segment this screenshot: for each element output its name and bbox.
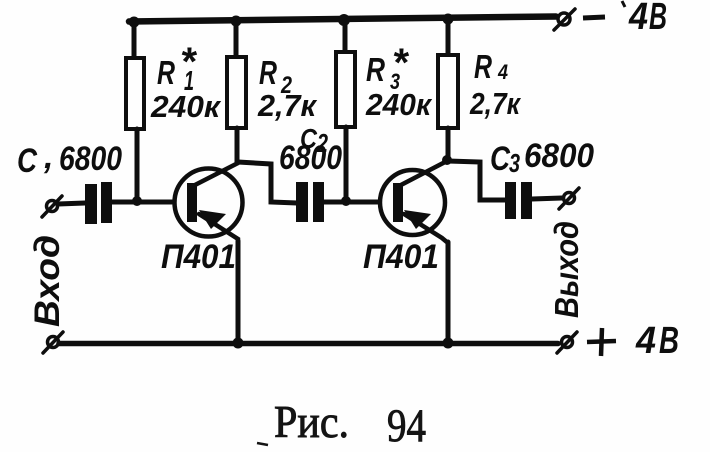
wire bottom rail +4V bbox=[59, 341, 558, 347]
wire R3 to C2 output node bbox=[344, 127, 349, 201]
wire Q1 collector to C2 bbox=[238, 162, 297, 203]
label R3 bbox=[366, 41, 410, 94]
wire Q2 collector to C3 bbox=[448, 161, 506, 200]
wire C2 to Q2 base bbox=[324, 200, 378, 205]
transistor Q2 circle bbox=[380, 170, 445, 235]
svg-text:6800: 6800 bbox=[59, 140, 122, 178]
svg-text:4: 4 bbox=[635, 320, 656, 362]
wire rail to R3 bbox=[343, 20, 348, 52]
transistor Q2 emitter line bbox=[404, 214, 448, 243]
svg-text:240к: 240к bbox=[365, 87, 432, 122]
wire rail to R4 bbox=[446, 19, 451, 55]
terminal top right bbox=[554, 9, 575, 30]
svg-text:C: C bbox=[490, 140, 510, 178]
label +4V bottom right bbox=[587, 320, 679, 362]
svg-text:6800: 6800 bbox=[279, 139, 342, 177]
speckle mark bbox=[257, 443, 268, 445]
node dot Q2 collector bbox=[442, 155, 452, 165]
terminal output right bbox=[559, 188, 579, 209]
wire R1 to input node bbox=[135, 129, 140, 201]
svg-text:240к: 240к bbox=[150, 89, 221, 124]
svg-text:4: 4 bbox=[497, 61, 508, 84]
wire rail to R1 bbox=[132, 22, 137, 58]
svg-text:94: 94 bbox=[387, 400, 426, 452]
svg-text:3: 3 bbox=[509, 148, 520, 178]
transistor Q1 emitter line bbox=[199, 214, 238, 244]
resistor R2 body bbox=[227, 57, 246, 128]
wire C3 to output terminal bbox=[532, 198, 562, 199]
node dot C1/R1/base bbox=[132, 196, 142, 206]
node dot rail/R4 bbox=[443, 14, 454, 25]
node dot rail/Q1 emitter bbox=[233, 338, 244, 349]
resistor R1 body bbox=[126, 58, 144, 129]
wire C1 to base node bbox=[112, 200, 172, 205]
transistor Q2 base bar bbox=[393, 183, 403, 222]
node dot rail/R3 bbox=[338, 14, 350, 26]
svg-text:В: В bbox=[659, 320, 679, 362]
label R2 bbox=[259, 54, 293, 99]
node dot C2/R3/base bbox=[341, 196, 351, 206]
capacitor C3 plates bbox=[505, 182, 532, 219]
svg-text:2,7к: 2,7к bbox=[469, 86, 521, 121]
wire top rail -4V bbox=[129, 17, 556, 22]
label C1 6800 bbox=[17, 138, 122, 180]
transistor Q2 emitter arrow bbox=[404, 210, 431, 229]
transistor Q1 emitter arrow bbox=[199, 210, 226, 229]
wire R4 to T2 collector node bbox=[446, 128, 451, 161]
transistor Q1 base bar bbox=[187, 183, 197, 222]
node dot rail/R2 bbox=[231, 16, 242, 27]
label -4V top right bbox=[583, 0, 667, 38]
svg-text:2,7к: 2,7к bbox=[257, 88, 317, 123]
caption Ris. 94 bbox=[257, 397, 426, 452]
svg-text:Выход: Выход bbox=[548, 221, 585, 318]
wire rail to R2 bbox=[234, 21, 239, 57]
svg-text:4: 4 bbox=[628, 0, 648, 38]
node dot rail/R1 bbox=[129, 17, 140, 28]
svg-text:R: R bbox=[259, 54, 277, 91]
svg-text:П401: П401 bbox=[363, 238, 439, 276]
wire Q2 emitter to bottom rail bbox=[446, 242, 451, 342]
resistor R3 body bbox=[336, 52, 355, 127]
terminal bottom right bbox=[557, 332, 577, 353]
svg-text:П401: П401 bbox=[161, 238, 236, 276]
svg-text:C: C bbox=[17, 142, 37, 180]
svg-text:,: , bbox=[43, 138, 53, 176]
svg-text:Рис.: Рис. bbox=[274, 397, 349, 447]
label R4 bbox=[474, 48, 508, 85]
svg-text:Вход: Вход bbox=[28, 235, 67, 327]
transistor Q1 circle bbox=[175, 169, 243, 237]
terminal bottom left bbox=[43, 332, 63, 353]
svg-text:В: В bbox=[649, 0, 667, 38]
label C3 6800 bbox=[490, 137, 594, 178]
wire input terminal to C1 bbox=[58, 203, 85, 204]
svg-text:6800: 6800 bbox=[524, 137, 594, 175]
transistor Q2 collector line bbox=[399, 161, 447, 186]
svg-text:R: R bbox=[157, 54, 175, 91]
wire R2 to T1 collector node bbox=[235, 128, 240, 163]
label C2 bbox=[300, 123, 328, 158]
transistor Q1 collector line bbox=[193, 163, 238, 186]
label R1 bbox=[157, 40, 198, 96]
capacitor C2 plates bbox=[296, 182, 324, 222]
svg-text:R: R bbox=[474, 48, 492, 85]
node dot rail/Q2 emitter bbox=[443, 338, 454, 349]
svg-text:R: R bbox=[366, 51, 385, 88]
capacitor C1 plates bbox=[85, 182, 112, 224]
resistor R4 body bbox=[438, 55, 458, 128]
terminal input left bbox=[42, 196, 62, 217]
wire Q1 emitter to bottom rail bbox=[236, 241, 241, 342]
